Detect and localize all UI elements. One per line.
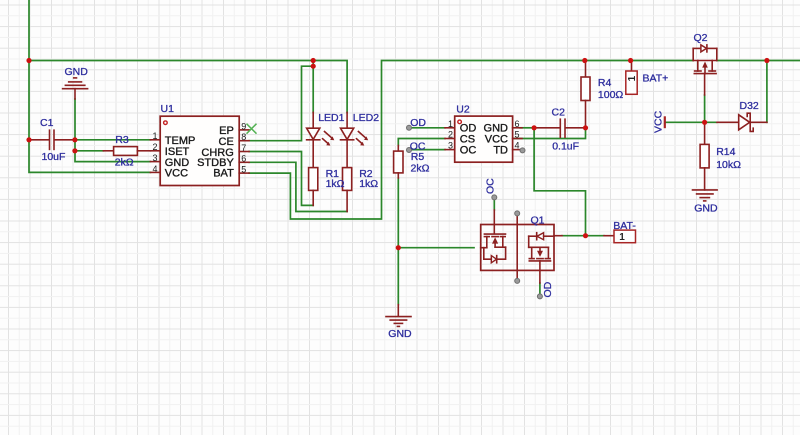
U1 pin stubs left [150,140,160,173]
label 2kOhm R3 [115,157,134,169]
connector BAT- [614,230,636,243]
svg-text:1kΩ: 1kΩ [359,178,378,190]
svg-text:7: 7 [241,143,246,153]
wire: R5 bottom to GND junction to Q1 left pin [397,178,399,305]
label GND top-left [65,66,89,78]
wire: left vertical rail x=29 from top to VCC pin4 [29,0,150,172]
wire: U2 pin5 VCC to C2 right node [513,128,586,139]
label OD rotated bottom of Q1 [542,281,554,297]
wire: Q2 gate green segment [704,95,706,122]
wire: C1 top lead connect / pin1 TEMP [75,139,150,141]
svg-text:5: 5 [515,130,520,140]
svg-text:OC: OC [460,145,477,157]
Q1 right FET [529,233,554,283]
label C2 [552,107,566,119]
wire: Q1 right pin to BAT- node [562,235,604,237]
wire: VCC port to Q2 gate junction to D32 [666,121,717,123]
LED LED2 [341,112,369,167]
svg-text:100Ω: 100Ω [598,89,624,101]
svg-text:1: 1 [152,131,157,141]
wire: CHRG pin7 to R1 bottom [249,152,313,206]
label LED2 [353,112,379,124]
svg-text:2: 2 [448,130,453,140]
label LED1 [318,112,344,124]
resistor R4 [581,61,590,128]
wire: U2 pin2 to R5 top [398,139,445,146]
resistor R1 [309,168,318,206]
svg-text:GND: GND [388,328,412,340]
op-amp U1 charger IC box [160,116,239,185]
wire: C2 left node down jog to Q1 right node [534,128,585,236]
capacitor C2 [534,119,585,137]
svg-text:3: 3 [152,153,157,163]
label R3 [115,134,129,146]
transistor Q2 P-MOSFET [693,45,717,95]
wire: STDBY pin6 to R2 bottom [249,162,347,211]
svg-text:10uF: 10uF [42,151,66,163]
wire: D32 cathode up to rail [766,61,768,123]
svg-text:LED1: LED1 [318,112,344,124]
port OC top gray dot [492,195,497,200]
port NC top gray dot [515,211,520,216]
svg-text:VCC: VCC [165,168,188,180]
svg-text:C2: C2 [552,107,566,119]
svg-text:1: 1 [627,75,638,81]
svg-text:2kΩ: 2kΩ [411,162,430,174]
svg-text:Q2: Q2 [694,32,708,44]
label D32 [740,100,759,112]
label BAT- [613,220,636,232]
label U2 [456,103,470,115]
port TD gray dot [520,148,525,153]
label OC rotated top of Q1 [484,178,496,194]
label R14 [716,146,735,158]
label R1 [326,168,340,180]
svg-text:R5: R5 [411,151,425,163]
svg-text:C1: C1 [40,117,54,129]
label 1kOhm R1 [326,178,345,190]
U2 pin stubs left [445,128,455,150]
svg-text:Q1: Q1 [531,215,545,227]
wire: LED1 anode drop x=313.2 [312,61,314,113]
svg-text:U1: U1 [161,103,175,115]
wire: top horizontal rail y=60.5 left part [29,61,347,113]
label U1 [161,103,175,115]
port OD left gray dot [407,125,412,130]
label BAT+ [643,73,669,85]
svg-text:3: 3 [448,141,453,151]
U1 pin names [165,125,235,179]
resistor R14 [700,122,709,190]
connector BAT+ [626,61,638,95]
resistor R5 [394,146,403,179]
svg-text:VCC: VCC [653,110,665,133]
svg-text:9: 9 [241,121,246,131]
U2 pin stubs right [513,128,522,150]
label 1kOhm R2 [359,178,378,190]
label OD net [410,117,426,129]
svg-text:4: 4 [152,164,157,174]
wire: OC port to U2 pin3 [411,149,445,151]
LED LED1 [307,112,335,167]
wire: OC port drop to Q1 gate [493,200,495,210]
svg-text:OC: OC [484,178,496,194]
svg-text:R3: R3 [115,134,129,146]
svg-text:R14: R14 [716,146,735,158]
svg-text:TD: TD [493,145,508,157]
svg-text:BAT: BAT [213,168,234,180]
label OC net [410,140,426,152]
label GND bottom-left [388,328,412,340]
U1 pin stubs right [239,130,249,173]
resistor R2 [343,168,352,212]
label Q2 [694,32,708,44]
Q1 right pin stub to BAT- [554,235,614,237]
capacitor C1 [29,130,75,149]
svg-text:GND: GND [694,202,718,214]
label R5 [411,151,425,163]
label VCC rotated [653,110,665,133]
wire: R3 left lead green [75,150,104,152]
resistor R3 [103,147,150,156]
label 2kOhm R5 [411,162,430,174]
svg-text:U2: U2 [456,103,470,115]
svg-text:BAT+: BAT+ [643,73,669,85]
wire: U2 pin6 GND to C2 left [520,127,534,129]
wire: OD port to U2 pin1 [411,127,445,129]
svg-text:D32: D32 [740,100,759,112]
node junction dots [26,58,769,250]
svg-text:2kΩ: 2kΩ [115,157,134,169]
svg-text:1: 1 [619,232,625,243]
label 10kOhm [716,159,741,171]
svg-text:2: 2 [152,142,157,152]
svg-text:OD: OD [542,281,554,297]
U2 pin numbers [448,119,520,151]
svg-text:8: 8 [241,132,246,142]
ground GND under R14 [693,190,718,201]
Q1 left FET [481,210,506,263]
Q1 through pin line [516,216,518,279]
svg-text:6: 6 [241,154,246,164]
port OD bottom gray dot [537,294,542,299]
no-connect X on U1 pin 9 [247,124,257,134]
op-amp U2 protection IC box [455,116,513,162]
wire: CE pin8 to LED node [249,66,313,141]
svg-text:5: 5 [241,165,246,175]
label 0.1uF [552,140,579,152]
transistor Q1 dual MOSFET box [481,225,554,271]
port NC bottom gray dot [515,278,520,283]
svg-text:6: 6 [515,119,520,129]
label R4 [598,77,612,89]
U1 pin numbers [152,121,246,174]
label Q1 [531,215,545,227]
label 100Ohm [598,89,624,101]
U2 pin names [460,123,508,157]
ground GND top-left earth symbol [63,78,88,99]
wire: BAT pin5 long path up to right rail [249,61,693,220]
label GND mid-right [694,202,718,214]
ground GND bottom-left [386,305,411,327]
svg-text:4: 4 [515,141,520,151]
svg-text:10kΩ: 10kΩ [716,159,741,171]
svg-text:GND: GND [65,66,89,78]
svg-text:LED2: LED2 [353,112,379,124]
wire: GND stem to C1 node down to pin3 [75,99,150,162]
svg-text:BAT-: BAT- [613,220,636,232]
svg-text:0.1uF: 0.1uF [552,140,579,152]
diode D32 schottky [717,113,767,131]
svg-text:1kΩ: 1kΩ [326,178,345,190]
svg-text:R4: R4 [598,77,612,89]
wire: OD port below Q1 [539,283,541,294]
label 10uF [42,151,66,163]
port OC left gray dot [407,148,412,153]
wire: junction to Q1 left pin [398,247,474,249]
port VCC tick [664,116,666,128]
label C1 [40,117,54,129]
svg-text:OD: OD [410,117,426,129]
wire: top rail right of Q2 to edge [717,60,800,62]
svg-text:1: 1 [448,119,453,129]
label R2 [359,168,373,180]
